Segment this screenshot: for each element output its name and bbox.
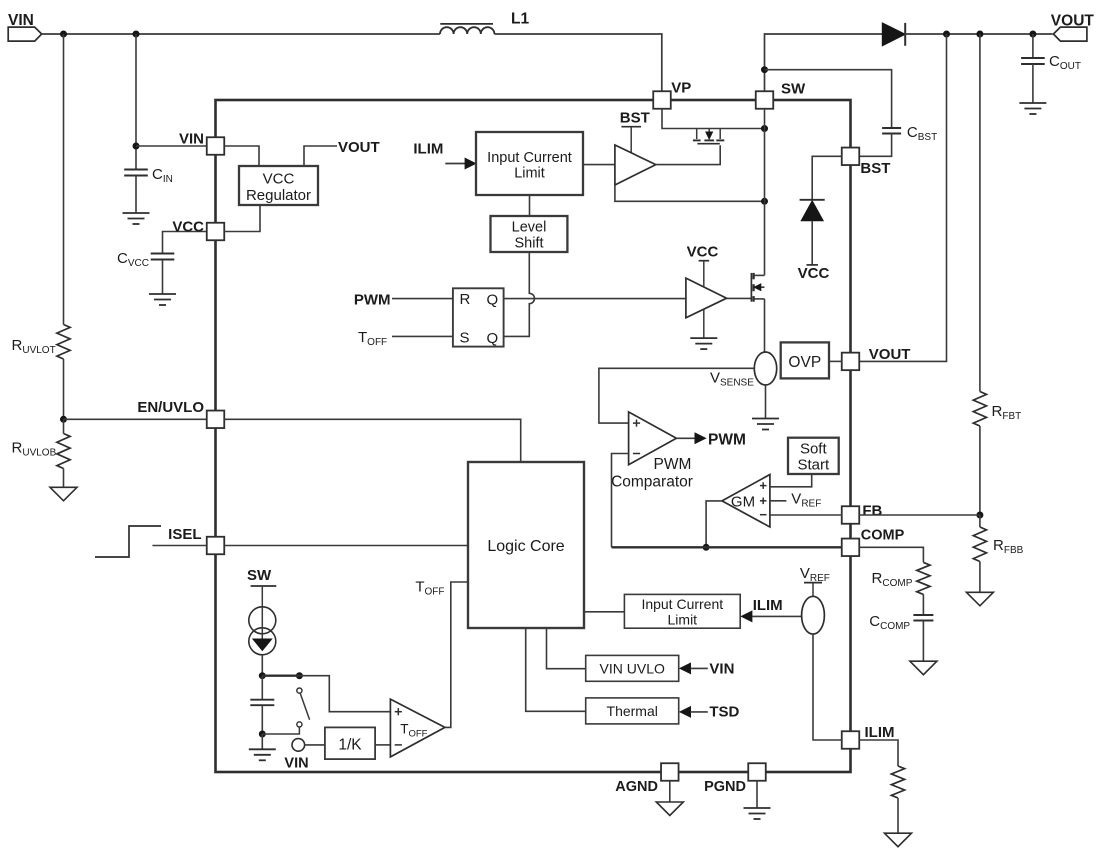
wire ICL to high side driver	[583, 164, 615, 166]
pin EN/UVLO	[207, 411, 225, 429]
arrow into Thermal	[680, 707, 691, 717]
block 1/K divider	[325, 727, 375, 759]
svg-text:VIN: VIN	[709, 661, 734, 678]
block VCC Regulator	[239, 166, 318, 205]
wire driver lower branch	[615, 185, 765, 201]
capacitor timing	[261, 676, 263, 700]
arrow into input current limit	[465, 158, 476, 168]
wire RILIM to ground	[897, 798, 899, 833]
port VOUT output connector	[1053, 27, 1087, 41]
svg-text:1/K: 1/K	[338, 737, 362, 754]
svg-text:COMP: COMP	[861, 528, 905, 544]
plus sign TOFF comparator	[395, 711, 402, 713]
arrow into ICL bottom	[741, 611, 752, 621]
wire EN/UVLO pin to logic core	[224, 419, 520, 462]
svg-text:Shift: Shift	[514, 236, 543, 252]
svg-text:ILIM: ILIM	[413, 141, 443, 158]
node timing cap bottom	[259, 731, 266, 738]
wire EN node to EN/UVLO pin	[64, 418, 208, 420]
wire logic core to TOFF comparator	[445, 582, 468, 727]
svg-text:Q: Q	[487, 292, 499, 309]
svg-text:ISEL: ISEL	[168, 526, 201, 543]
SW supply bar	[251, 585, 277, 587]
minus sign PWM comparator	[633, 453, 640, 455]
wire cs node to switch node	[262, 675, 299, 677]
svg-text:Soft: Soft	[800, 441, 828, 458]
pin BST	[842, 148, 860, 166]
wire RUVLOB to ground	[63, 469, 65, 488]
pin FB	[842, 506, 860, 524]
wire driver to PMOS gate	[656, 145, 720, 164]
BST supply bar	[621, 126, 641, 128]
wire OVP to VOUT pin	[829, 360, 842, 362]
wire switch node to TOFF plus	[299, 676, 390, 712]
op-amp PWM comparator	[629, 412, 677, 465]
ground arrow below RILIM	[885, 833, 912, 847]
wire SW rail up and right to diode	[765, 34, 883, 91]
capacitor CIN	[124, 169, 148, 171]
resistor RFBB	[979, 515, 981, 527]
wire RUVLOT to EN node	[63, 359, 65, 419]
svg-text:VIN: VIN	[8, 12, 34, 29]
ground arrow below RUVLOB	[50, 487, 77, 501]
svg-text:Logic Core: Logic Core	[487, 538, 564, 555]
svg-text:R: R	[460, 291, 471, 308]
svg-text:VIN: VIN	[179, 131, 204, 148]
svg-text:ILIM: ILIM	[753, 597, 783, 614]
svg-text:PWM: PWM	[654, 456, 692, 473]
svg-text:AGND: AGND	[615, 779, 658, 795]
wire CVCC to ground	[162, 260, 164, 295]
svg-text:PGND: PGND	[704, 779, 746, 795]
pin SW	[756, 91, 774, 109]
svg-text:VCC: VCC	[687, 244, 719, 261]
wire VIN to VIN UVLO	[691, 667, 708, 669]
ground below COUT	[1019, 102, 1046, 104]
ground arrow below CCOMP	[910, 661, 937, 675]
pin ILIM	[842, 731, 860, 749]
wire COMP line	[612, 546, 843, 548]
svg-text:VOUT: VOUT	[1051, 13, 1095, 30]
wire VREF ellipse to ILIM pin	[813, 634, 842, 740]
resistor RILIM	[891, 766, 904, 798]
wire logic core to VIN UVLO	[547, 628, 586, 669]
node EN/UVLO divider junction	[60, 416, 67, 423]
svg-text:VIN UVLO: VIN UVLO	[600, 661, 665, 677]
plus sign GM top	[760, 485, 767, 487]
svg-text:FB: FB	[862, 503, 882, 520]
current source I1	[249, 607, 276, 634]
wire current source to node	[261, 655, 263, 676]
wire CIN branch down	[135, 34, 137, 170]
svg-text:GM: GM	[731, 494, 755, 511]
wire RFBT to FB node	[979, 426, 981, 515]
svg-text:Level: Level	[512, 220, 547, 236]
pin AGND	[661, 763, 679, 781]
wire CBST to BST pin	[859, 134, 892, 157]
node SW-CBST junction	[761, 66, 768, 73]
wire bubble to 1/K	[305, 744, 325, 746]
wire CIN to ground	[135, 176, 137, 214]
diode D1 output	[882, 23, 905, 46]
wire timing cap to ground node	[261, 705, 263, 734]
node PMOS drain junction	[761, 125, 768, 132]
op-amp high-side gate driver	[615, 145, 656, 185]
svg-text:Comparator: Comparator	[611, 474, 693, 491]
VCC supply bar low driver	[699, 260, 710, 262]
minus sign GM bottom	[760, 514, 767, 516]
svg-text:Q: Q	[487, 330, 499, 347]
svg-text:PWM: PWM	[354, 292, 391, 309]
resistor RFBT	[973, 392, 986, 427]
svg-text:BST: BST	[620, 110, 650, 127]
svg-text:VCC: VCC	[798, 265, 830, 282]
svg-text:VOUT: VOUT	[338, 139, 380, 156]
wire FB pin to divider	[859, 514, 980, 516]
wire VOUT pin to output rail	[859, 34, 947, 361]
pin VOUT	[842, 353, 860, 371]
node COMP junction	[703, 544, 710, 551]
wire ICL to level shift	[529, 195, 531, 216]
node VOUT-pin-line junction	[943, 31, 950, 38]
wire COMP pin to RCOMP	[859, 547, 924, 562]
wire RCOMP to CCOMP	[922, 594, 924, 615]
wire diode to VOUT port	[905, 33, 1052, 35]
ground below timing cap	[249, 748, 276, 750]
wire ISEL pin to logic core	[224, 545, 468, 547]
wire VSENSE to PWM comparator	[599, 368, 754, 423]
step waveform symbol ISEL	[95, 526, 161, 557]
node VOUT-COUT junction	[1029, 31, 1036, 38]
capacitor COUT	[1021, 57, 1045, 59]
pin ISEL	[207, 537, 225, 555]
svg-text:PWM: PWM	[708, 432, 746, 449]
node VOUT-FB-divider junction	[976, 31, 983, 38]
wire low driver ground stub	[703, 309, 705, 338]
wire PWM comparator output	[676, 437, 696, 439]
ground below CVCC	[149, 293, 176, 295]
svg-text:VIN: VIN	[284, 756, 308, 772]
svg-text:Limit: Limit	[668, 612, 698, 628]
transistor M2 low-side NMOS	[750, 273, 752, 302]
block OVP	[781, 342, 829, 378]
wire GM minus to FB pin	[770, 514, 842, 516]
pin COMP	[842, 539, 860, 557]
wire VCC pin to CVCC	[163, 232, 208, 254]
resistor RCOMP	[917, 562, 930, 594]
wire NMOS source to VSENSE	[764, 299, 766, 352]
op-amp TOFF comparator	[390, 699, 445, 757]
plus sign PWM comparator	[633, 422, 640, 424]
wire CIN node to VIN pin	[136, 145, 207, 147]
node lower branch junction	[761, 198, 768, 205]
wire SW pin down to NMOS	[764, 109, 766, 276]
svg-text:SW: SW	[781, 81, 806, 98]
wire PGND stub	[756, 781, 758, 808]
wire VIN pin to VCC regulator	[224, 146, 259, 166]
wire VIN rail to inductor	[42, 33, 440, 35]
pin VCC	[207, 223, 225, 241]
svg-text:BST: BST	[860, 160, 890, 177]
svg-text:TSD: TSD	[709, 704, 739, 721]
node switch top	[296, 672, 303, 679]
ground below VSENSE	[752, 418, 779, 420]
wire COUT branch	[1032, 34, 1034, 58]
wire inductor to VP corner	[494, 34, 661, 91]
pin VIN	[207, 137, 225, 155]
op-amp GM error amplifier	[722, 475, 770, 528]
wire soft start to GM plus	[770, 474, 812, 487]
wire ISEL stub	[152, 545, 207, 547]
pin VP	[653, 91, 671, 109]
wire ILIM to ICL bottom	[752, 615, 802, 617]
wire VCC regulator VOUT tap	[304, 146, 337, 166]
pin PGND	[748, 763, 766, 781]
VREF supply bar	[804, 582, 822, 584]
svg-text:Limit: Limit	[514, 166, 545, 182]
diode D2 VCC to BST	[800, 199, 825, 201]
block Input Current Limit (bottom)	[624, 594, 740, 628]
block Input Current Limit (top)	[476, 132, 583, 195]
inductor L1	[440, 27, 494, 34]
ground below PGND	[744, 807, 771, 809]
wire logic core to Thermal	[526, 628, 586, 711]
svg-text:L1: L1	[511, 11, 529, 28]
wire PWM comp minus to COMP line	[612, 454, 629, 548]
block Soft Start	[788, 438, 839, 474]
minus sign TOFF comparator	[395, 744, 402, 746]
block Level Shift	[491, 216, 568, 252]
ground below CIN	[123, 212, 150, 214]
resistor RUVLOT	[57, 325, 70, 360]
svg-text:Start: Start	[797, 457, 830, 474]
block Thermal	[586, 698, 679, 724]
wire FB divider vertical	[979, 34, 981, 392]
wire PWM to latch R	[392, 298, 453, 300]
block Logic Core	[468, 462, 584, 628]
block RS latch	[453, 288, 504, 346]
wire TSD to Thermal	[691, 711, 708, 713]
wire TOFF to latch S	[392, 335, 453, 337]
wire VCC regulator to VCC pin	[224, 205, 260, 232]
port VIN input connector	[8, 27, 42, 41]
svg-text:VP: VP	[671, 80, 691, 97]
node VIN-RUVLOT junction	[60, 31, 67, 38]
svg-text:OVP: OVP	[788, 354, 821, 371]
wire AGND stub	[669, 781, 671, 802]
node FB junction	[976, 512, 983, 519]
wire logic core to ICL bottom	[584, 611, 624, 613]
svg-text:EN/UVLO: EN/UVLO	[137, 399, 204, 416]
svg-text:Thermal: Thermal	[607, 703, 658, 719]
svg-text:SW: SW	[247, 567, 272, 584]
svg-text:VOUT: VOUT	[869, 346, 911, 363]
svg-text:S: S	[460, 330, 470, 347]
transistor M1 high-side MOSFET	[696, 129, 698, 140]
wire RFBB to ground	[979, 562, 981, 593]
ground arrow below RFBB	[966, 592, 993, 606]
wire GM output to COMP line	[706, 501, 722, 547]
resistor RUVLOB	[63, 419, 65, 433]
wire diode anode to VCC	[811, 221, 813, 265]
node CIN-VIN pin junction	[133, 143, 140, 150]
svg-text:VCC: VCC	[172, 219, 204, 236]
wire COUT to ground	[1032, 64, 1034, 103]
current sense VSENSE ellipse	[754, 352, 776, 385]
arrow into VIN UVLO	[680, 663, 691, 673]
switch S1 discharge	[297, 688, 302, 693]
current source VREF ellipse	[802, 596, 825, 634]
wire level shift to latch Qbar with hop	[504, 252, 535, 336]
ground arrow below AGND	[656, 802, 683, 816]
wire BST pin to diode	[812, 156, 842, 200]
svg-text:Input Current: Input Current	[487, 150, 572, 166]
wire VSENSE to ground	[765, 385, 767, 419]
wire RUVLOT branch down	[63, 34, 65, 325]
wire driver to NMOS gate	[727, 297, 752, 299]
svg-text:Input Current: Input Current	[641, 596, 723, 612]
wire ILIM pin to resistor	[859, 740, 898, 766]
wire VP pin to PMOS	[662, 109, 765, 129]
wire latch Q to gate driver	[504, 298, 686, 300]
wire GM VREF stub	[770, 500, 787, 502]
wire 1/K to TOFF minus	[375, 744, 390, 746]
IC boundary box	[216, 100, 851, 772]
svg-text:ILIM: ILIM	[865, 724, 895, 741]
capacitor CBST	[882, 127, 901, 129]
svg-text:VCC: VCC	[263, 171, 295, 188]
wire ground node stub	[261, 734, 263, 749]
arrow PWM output	[695, 433, 706, 443]
wire CCOMP to ground	[922, 621, 924, 662]
op-amp low-side gate driver	[686, 278, 727, 318]
wire ILIM arrow line	[445, 163, 466, 165]
input bubble VIN sense	[292, 739, 305, 752]
capacitor CVCC	[151, 253, 175, 255]
ground below low driver	[690, 337, 717, 339]
plus sign GM middle	[760, 500, 767, 502]
svg-text:Regulator: Regulator	[246, 187, 311, 204]
node timing cap top	[259, 672, 266, 679]
wire CBST from SW node	[765, 70, 892, 128]
block VIN UVLO	[586, 655, 679, 681]
node VIN-CIN junction	[133, 31, 140, 38]
capacitor CCOMP	[913, 614, 933, 616]
